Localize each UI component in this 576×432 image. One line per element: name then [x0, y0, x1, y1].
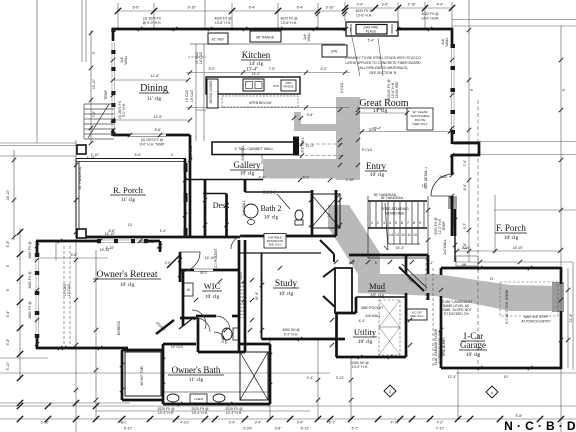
- svg-text:7: 7: [407, 221, 409, 225]
- svg-text:SEE VIS-1: SEE VIS-1: [268, 243, 282, 247]
- svg-text:Desk: Desk: [213, 201, 229, 210]
- svg-text:10'-4" H.H.: 10'-4" H.H.: [158, 411, 174, 415]
- svg-text:10': 10': [504, 375, 509, 379]
- svg-text:6': 6': [6, 288, 10, 291]
- svg-text:21'-4": 21'-4": [569, 313, 573, 322]
- svg-text:10: 10: [413, 233, 417, 237]
- svg-text:W: W: [187, 288, 190, 292]
- svg-text:13'-6" H.H.: 13'-6" H.H.: [215, 21, 231, 25]
- svg-text:O/W: O/W: [331, 50, 337, 54]
- svg-text:10' clg: 10' clg: [466, 352, 481, 358]
- svg-text:2480: 2480: [221, 335, 225, 343]
- svg-text:(3) 2670 FX: (3) 2670 FX: [143, 17, 162, 21]
- svg-text:2-0 POCKET: 2-0 POCKET: [214, 248, 218, 268]
- svg-text:5'-6": 5'-6": [133, 6, 141, 10]
- svg-text:13: 13: [395, 233, 399, 237]
- svg-text:4'-1": 4'-1": [427, 261, 435, 265]
- svg-text:EGRESS: EGRESS: [117, 320, 121, 335]
- svg-text:13'-4": 13'-4": [252, 72, 261, 76]
- svg-text:10' clg: 10' clg: [264, 215, 279, 221]
- svg-text:@ 9'-0" H.H.: @ 9'-0" H.H.: [143, 21, 162, 25]
- svg-text:3'-8": 3'-8": [275, 427, 283, 431]
- svg-text:STAIRCASE: STAIRCASE: [386, 212, 406, 216]
- svg-text:12: 12: [401, 233, 405, 237]
- svg-text:6'-2" H.H.: 6'-2" H.H.: [284, 333, 299, 337]
- svg-text:14' CLG: 14' CLG: [199, 51, 203, 64]
- svg-text:4'-10": 4'-10": [346, 178, 355, 182]
- svg-text:MAX 1/4" STEP: MAX 1/4" STEP: [524, 315, 549, 319]
- svg-text:Owner's Bath: Owner's Bath: [172, 365, 221, 375]
- svg-text:Gallery: Gallery: [234, 160, 261, 170]
- svg-text:15' CLG: 15' CLG: [185, 89, 189, 102]
- svg-text:8080 S6D: 8080 S6D: [139, 240, 155, 244]
- svg-text:Bath 2: Bath 2: [260, 204, 281, 213]
- svg-text:20'-4": 20'-4": [373, 127, 382, 131]
- svg-text:4'-2": 4'-2": [259, 176, 267, 180]
- svg-text:(SEE VIS-1: (SEE VIS-1: [412, 122, 428, 126]
- svg-text:AT PORCH ENTRY: AT PORCH ENTRY: [521, 320, 551, 324]
- svg-text:O/W: O/W: [273, 84, 279, 88]
- svg-text:5'-0": 5'-0": [209, 67, 217, 71]
- svg-text:10' clg: 10' clg: [120, 282, 135, 288]
- svg-text:6'-4": 6'-4": [249, 6, 257, 10]
- svg-text:Entry: Entry: [366, 161, 386, 171]
- svg-text:6'-4": 6'-4": [297, 6, 305, 10]
- svg-text:6'-2": 6'-2": [303, 176, 311, 180]
- svg-text:WALL: WALL: [124, 55, 128, 64]
- svg-text:9'-8": 9'-8": [377, 107, 385, 111]
- svg-text:11: 11: [407, 233, 411, 237]
- svg-text:36" HANDRAIL: 36" HANDRAIL: [78, 166, 82, 189]
- svg-text:OPEN BELOW: OPEN BELOW: [249, 101, 273, 105]
- svg-text:3: 3: [383, 221, 385, 225]
- svg-text:48" RANGE: 48" RANGE: [256, 36, 275, 40]
- svg-text:TEMP: TEMP: [442, 221, 446, 231]
- svg-text:TEMP: TEMP: [104, 90, 108, 100]
- svg-text:2'-0": 2'-0": [165, 261, 173, 265]
- svg-text:Kitchen: Kitchen: [242, 50, 271, 60]
- svg-text:10'-0" H.H.: 10'-0" H.H.: [352, 365, 368, 369]
- svg-text:4'-10": 4'-10": [87, 156, 96, 160]
- svg-text:4' CLG: 4' CLG: [340, 82, 344, 93]
- svg-text:6'-0": 6'-0": [321, 67, 329, 71]
- svg-text:5'-4": 5'-4": [368, 39, 376, 43]
- svg-text:9'-0" H.H. TEMP: 9'-0" H.H. TEMP: [140, 143, 166, 147]
- svg-text:4: 4: [389, 221, 391, 225]
- svg-text:4050 SH @: 4050 SH @: [282, 328, 300, 332]
- svg-text:9: 9: [419, 221, 421, 225]
- svg-text:16'-4": 16'-4": [396, 246, 405, 250]
- svg-text:3680 FX @: 3680 FX @: [28, 271, 32, 289]
- svg-text:21': 21': [490, 277, 495, 281]
- svg-text:5'-11": 5'-11": [124, 427, 133, 431]
- svg-text:16'-10": 16'-10": [6, 189, 10, 200]
- svg-text:5: 5: [395, 221, 397, 225]
- svg-text:3'-4": 3'-4": [229, 421, 237, 425]
- svg-text:10' CLG: 10' CLG: [67, 283, 71, 296]
- svg-text:6: 6: [401, 221, 403, 225]
- svg-text:3680 FX @: 3680 FX @: [28, 241, 32, 259]
- svg-text:4'-4": 4'-4": [307, 376, 315, 380]
- svg-text:6'-8": 6'-8": [71, 253, 79, 257]
- svg-text:2x6 WALL: 2x6 WALL: [242, 200, 246, 216]
- svg-text:3'-4": 3'-4": [357, 3, 365, 7]
- svg-text:11': 11': [327, 213, 331, 218]
- svg-text:10' clg: 10' clg: [358, 339, 373, 345]
- svg-text:3680: 3680: [439, 175, 447, 179]
- svg-text:5'-6": 5'-6": [135, 153, 143, 157]
- svg-text:6'-7": 6'-7": [352, 427, 360, 431]
- svg-text:TIRE BUMP): TIRE BUMP): [442, 337, 446, 357]
- svg-text:4'-6": 4'-6": [463, 183, 467, 191]
- svg-text:Study: Study: [275, 279, 297, 289]
- svg-text:16'-4": 16'-4": [255, 291, 259, 300]
- svg-text:11' clg: 11' clg: [189, 377, 204, 383]
- svg-text:11': 11': [422, 184, 427, 188]
- svg-text:8: 8: [413, 221, 415, 225]
- svg-text:12080 S6D: 12080 S6D: [395, 81, 399, 99]
- svg-text:7'-6": 7'-6": [463, 159, 467, 167]
- svg-text:16'-10": 16'-10": [100, 248, 111, 252]
- svg-text:TO EXCEED 2%: TO EXCEED 2%: [443, 312, 468, 316]
- svg-text:4'-4": 4'-4": [437, 3, 445, 7]
- svg-text:5': 5': [375, 261, 378, 265]
- svg-text:13'-6" H.H.: 13'-6" H.H.: [281, 21, 297, 25]
- svg-text:F. Porch: F. Porch: [496, 223, 526, 233]
- svg-text:10' clg: 10' clg: [370, 172, 385, 178]
- svg-text:7'-9": 7'-9": [269, 67, 277, 71]
- svg-text:5: 5: [389, 390, 391, 394]
- svg-text:4'-6": 4'-6": [463, 242, 467, 250]
- svg-text:3'-10": 3'-10": [326, 6, 335, 10]
- svg-text:4020 FX @: 4020 FX @: [280, 17, 298, 21]
- svg-text:3'-6": 3'-6": [382, 3, 390, 7]
- svg-text:FRIDGE: FRIDGE: [283, 85, 294, 89]
- svg-text:11' clg: 11' clg: [147, 96, 162, 102]
- svg-text:11' clg: 11' clg: [121, 197, 136, 203]
- svg-text:6'-1": 6'-1": [329, 421, 337, 425]
- svg-text:5'-10": 5'-10": [6, 361, 10, 370]
- svg-text:2'-10": 2'-10": [408, 3, 417, 7]
- svg-text:Utility: Utility: [354, 327, 377, 337]
- svg-text:14' CLG: 14' CLG: [190, 89, 194, 102]
- svg-text:9': 9': [562, 88, 566, 91]
- svg-text:SEE SECTION 'B': SEE SECTION 'B': [369, 71, 397, 75]
- svg-text:10' clg: 10' clg: [370, 293, 385, 299]
- svg-text:7'-11": 7'-11": [436, 427, 445, 431]
- svg-text:14: 14: [389, 233, 393, 237]
- svg-text:4': 4': [6, 264, 10, 267]
- svg-text:MICRO UNDER: MICRO UNDER: [209, 80, 213, 104]
- svg-text:6'-7": 6'-7": [463, 222, 467, 230]
- svg-text:16'-10": 16'-10": [105, 232, 116, 236]
- svg-text:13'-6": 13'-6": [154, 115, 163, 119]
- svg-text:8'-6": 8'-6": [155, 128, 163, 132]
- svg-text:36"x60" TUB: 36"x60" TUB: [140, 366, 144, 386]
- svg-text:4020 FX @: 4020 FX @: [355, 9, 373, 13]
- svg-text:(ALL FIRE-RATED MATERIALS): (ALL FIRE-RATED MATERIALS): [358, 66, 407, 70]
- svg-text:N · C · B · D: N · C · B · D: [504, 419, 576, 432]
- svg-text:3'-11": 3'-11": [336, 376, 345, 380]
- svg-text:9'-0" H.H.: 9'-0" H.H.: [122, 103, 126, 118]
- svg-text:LINEN: LINEN: [194, 397, 203, 401]
- svg-text:9': 9': [92, 51, 96, 54]
- svg-text:Garage: Garage: [460, 340, 486, 350]
- svg-text:10' clg: 10' clg: [205, 294, 220, 300]
- svg-text:(3) 2670 FX @: (3) 2670 FX @: [141, 138, 164, 142]
- svg-text:9'-8": 9'-8": [307, 113, 315, 117]
- svg-text:13'-6" HOR.: 13'-6" HOR.: [421, 17, 439, 21]
- svg-text:5'-4": 5'-4": [6, 310, 10, 318]
- svg-text:15'-10": 15'-10": [513, 246, 524, 250]
- svg-text:1: 1: [371, 221, 373, 225]
- svg-text:3680 FX @: 3680 FX @: [28, 301, 32, 319]
- svg-text:9'-10": 9'-10": [188, 6, 197, 10]
- svg-text:2680 POCKET: 2680 POCKET: [361, 306, 383, 310]
- svg-text:4'-4": 4'-4": [359, 319, 367, 323]
- svg-text:10'-4" H.H.: 10'-4" H.H.: [226, 411, 242, 415]
- svg-text:4'-2": 4'-2": [437, 421, 445, 425]
- svg-text:13'-6" H.H.: 13'-6" H.H.: [356, 14, 372, 18]
- svg-text:12'-4": 12'-4": [448, 375, 457, 379]
- svg-text:2x6 WALL: 2x6 WALL: [365, 314, 381, 318]
- svg-text:PLACE: PLACE: [366, 30, 376, 34]
- svg-text:7'-2": 7'-2": [92, 110, 96, 118]
- svg-text:9'-0"x8'-0" O.H. DOOR: 9'-0"x8'-0" O.H. DOOR: [505, 289, 509, 324]
- svg-text:2425: 2425: [239, 272, 243, 280]
- svg-text:11'-6": 11'-6": [151, 74, 160, 78]
- svg-text:4020 FX @: 4020 FX @: [421, 12, 439, 16]
- svg-text:10' clg: 10' clg: [504, 235, 519, 241]
- svg-text:9': 9': [470, 88, 474, 91]
- svg-text:9' CLG: 9' CLG: [362, 148, 373, 152]
- svg-text:Owner's Retreat: Owner's Retreat: [96, 270, 157, 280]
- svg-text:14' clg: 14' clg: [249, 61, 264, 67]
- svg-text:WALL: WALL: [307, 32, 311, 41]
- svg-text:10' clg: 10' clg: [279, 291, 294, 297]
- svg-text:13': 13': [128, 223, 133, 227]
- svg-text:9H: 9H: [462, 263, 467, 267]
- svg-text:15'-10": 15'-10": [92, 78, 96, 89]
- svg-text:4020 FX @: 4020 FX @: [214, 17, 232, 21]
- svg-text:3'-4": 3'-4": [255, 421, 263, 425]
- svg-text:WALL: WALL: [445, 37, 449, 46]
- svg-text:3'-0": 3'-0": [349, 261, 357, 265]
- svg-text:R. Porch: R. Porch: [113, 185, 144, 195]
- svg-text:1815: 1815: [199, 271, 207, 275]
- svg-text:11'-4": 11'-4": [306, 144, 315, 148]
- svg-text:3'-4": 3'-4": [297, 421, 305, 425]
- svg-text:2x6 WALL: 2x6 WALL: [241, 145, 245, 161]
- svg-text:5'-4": 5'-4": [6, 240, 10, 248]
- svg-text:10' CLG: 10' CLG: [171, 345, 184, 349]
- svg-text:42" REF: 42" REF: [212, 38, 225, 42]
- svg-text:4'-2¼": 4'-2¼": [180, 421, 190, 425]
- svg-text:5'-8": 5'-8": [516, 414, 524, 418]
- svg-text:36" HANDRAIL: 36" HANDRAIL: [373, 193, 396, 197]
- svg-text:5'-11": 5'-11": [301, 427, 310, 431]
- svg-text:10' clg: 10' clg: [240, 171, 255, 177]
- svg-text:5'-2½": 5'-2½": [243, 427, 253, 431]
- svg-text:2x2 WALL: 2x2 WALL: [443, 239, 447, 255]
- svg-text:Dining: Dining: [140, 83, 168, 94]
- svg-text:10'-4" H.H.: 10'-4" H.H.: [192, 411, 208, 415]
- svg-text:5'-4": 5'-4": [6, 338, 10, 346]
- svg-text:2: 2: [377, 221, 379, 225]
- svg-text:SEE VIS-1: SEE VIS-1: [410, 314, 424, 318]
- svg-text:FREE-STANDING: FREE-STANDING: [381, 207, 409, 211]
- svg-text:Mud: Mud: [369, 281, 386, 291]
- svg-text:4'-8¼": 4'-8¼": [117, 421, 127, 425]
- svg-text:4'-4": 4'-4": [160, 229, 168, 233]
- svg-text:4': 4': [171, 153, 174, 157]
